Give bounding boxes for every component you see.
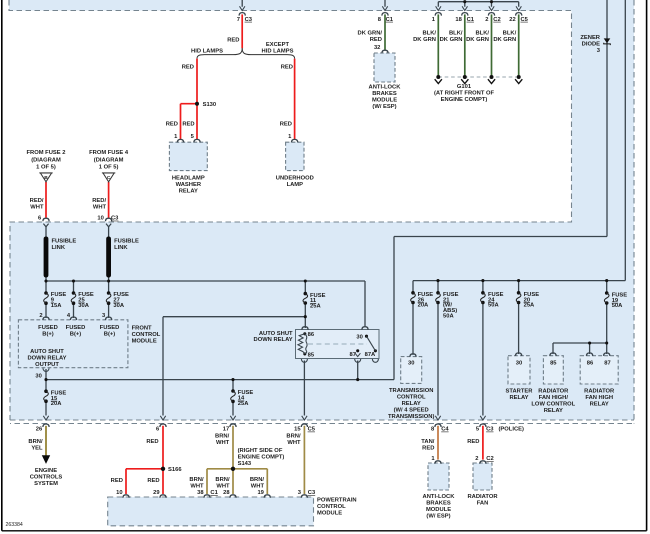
svg-text:BRAKES: BRAKES [426,501,451,507]
svg-text:TAN/: TAN/ [421,439,434,445]
svg-text:30: 30 [356,335,362,341]
svg-text:28: 28 [223,490,230,496]
svg-text:S166: S166 [168,467,182,473]
svg-text:FROM FUSE 4: FROM FUSE 4 [89,150,129,156]
svg-text:FAN HIGH: FAN HIGH [585,395,613,401]
svg-text:50A: 50A [612,303,623,309]
svg-text:S130: S130 [203,102,217,108]
svg-text:WHT: WHT [30,205,44,211]
svg-text:RED: RED [281,65,293,71]
svg-text:(AT RIGHT FRONT OF: (AT RIGHT FRONT OF [434,91,495,97]
svg-text:(W/ ESP): (W/ ESP) [372,104,396,110]
svg-text:25A: 25A [310,304,321,310]
svg-text:87: 87 [350,352,356,358]
svg-text:(DIAGRAM: (DIAGRAM [94,157,124,163]
svg-text:(RIGHT SIDE OF: (RIGHT SIDE OF [238,448,283,454]
svg-text:WHT: WHT [251,484,265,490]
svg-text:ENGINE COMPT): ENGINE COMPT) [441,97,488,103]
svg-text:RED: RED [280,121,292,127]
svg-text:86: 86 [587,361,594,367]
svg-text:MODULE: MODULE [426,507,451,513]
svg-text:87A: 87A [365,352,376,358]
svg-text:ANTI-LOCK: ANTI-LOCK [369,85,402,91]
svg-text:LOW CONTROL: LOW CONTROL [531,401,575,407]
svg-text:RELAY: RELAY [402,401,421,407]
svg-text:FUSIBLE: FUSIBLE [114,239,139,245]
svg-text:WHT: WHT [93,205,107,211]
svg-text:FAN HIGH/: FAN HIGH/ [539,395,569,401]
svg-text:85: 85 [550,361,557,367]
svg-text:RED: RED [422,446,434,452]
svg-text:1 OF 5): 1 OF 5) [99,164,119,170]
svg-text:17: 17 [223,427,229,433]
svg-text:(W/ ESP): (W/ ESP) [426,514,450,520]
svg-text:RED: RED [227,38,239,44]
svg-text:C4: C4 [441,427,449,433]
svg-text:DIODE: DIODE [582,41,600,47]
svg-text:20A: 20A [418,303,429,309]
svg-text:B(+): B(+) [104,331,116,337]
svg-text:30A: 30A [113,303,124,309]
svg-text:ANTI-LOCK: ANTI-LOCK [423,494,456,500]
svg-text:RED: RED [147,478,159,484]
svg-text:WHT: WHT [287,440,301,446]
svg-text:BLK/: BLK/ [503,30,517,36]
svg-text:C5: C5 [521,17,529,23]
svg-text:26: 26 [36,427,43,433]
svg-text:RADIATOR: RADIATOR [467,494,498,500]
svg-text:FUSED: FUSED [38,325,58,331]
svg-text:DOWN RELAY: DOWN RELAY [27,356,66,362]
svg-text:C3: C3 [245,17,253,23]
svg-text:C5: C5 [308,427,316,433]
svg-text:BRN/: BRN/ [215,477,230,483]
svg-text:BRAKES: BRAKES [372,91,397,97]
svg-text:RADIATOR: RADIATOR [584,388,615,394]
svg-text:C2: C2 [493,17,500,23]
svg-text:MODULE: MODULE [132,338,157,344]
svg-text:FUSED: FUSED [66,325,86,331]
svg-text:15A: 15A [51,303,62,309]
svg-text:RED: RED [182,65,194,71]
svg-text:MODULE: MODULE [372,98,397,104]
svg-text:87: 87 [604,361,610,367]
svg-text:DK GRN: DK GRN [413,37,436,43]
svg-text:BRN/: BRN/ [189,477,204,483]
svg-text:RED: RED [467,439,479,445]
svg-text:15: 15 [294,427,301,433]
svg-text:18: 18 [455,17,462,23]
svg-text:50A: 50A [443,314,454,320]
svg-text:WHT: WHT [216,484,230,490]
svg-text:30: 30 [35,373,41,379]
svg-text:STARTER: STARTER [506,388,534,394]
svg-text:22: 22 [509,17,515,23]
svg-text:EXCEPT: EXCEPT [266,42,290,48]
svg-text:S143: S143 [238,461,252,467]
svg-text:YEL: YEL [31,446,43,452]
svg-text:C3: C3 [486,427,494,433]
svg-text:86: 86 [308,332,315,338]
svg-text:(DIAGRAM: (DIAGRAM [31,157,61,163]
svg-text:WHT: WHT [216,440,230,446]
svg-text:7: 7 [237,17,240,23]
svg-text:C1: C1 [467,17,475,23]
svg-text:25A: 25A [238,401,249,407]
svg-text:FUSIBLE: FUSIBLE [52,239,77,245]
svg-text:G101: G101 [457,84,472,90]
svg-text:(W/ 4 SPEED: (W/ 4 SPEED [394,408,429,414]
svg-text:TRANSMISSION): TRANSMISSION) [388,414,434,420]
svg-text:DK GRN: DK GRN [466,37,489,43]
svg-text:SYSTEM: SYSTEM [34,481,58,487]
svg-text:FRONT: FRONT [132,325,152,331]
svg-text:2: 2 [475,456,478,462]
svg-text:19: 19 [257,490,264,496]
svg-text:FUSED: FUSED [100,325,120,331]
svg-text:DOWN RELAY: DOWN RELAY [254,337,293,343]
svg-text:BRN/: BRN/ [28,439,43,445]
svg-text:C3: C3 [111,216,119,222]
svg-text:WHT: WHT [190,484,204,490]
svg-text:10: 10 [116,490,122,496]
svg-text:85: 85 [308,352,315,358]
svg-text:C1: C1 [210,490,218,496]
svg-text:C1: C1 [386,17,394,23]
svg-text:RED: RED [146,439,158,445]
svg-text:LAMP: LAMP [287,182,304,188]
svg-text:30: 30 [408,361,414,367]
svg-text:DK GRN: DK GRN [440,37,463,43]
svg-text:263384: 263384 [6,522,23,528]
svg-text:FROM FUSE 2: FROM FUSE 2 [27,150,66,156]
svg-text:CONTROLS: CONTROLS [30,475,63,481]
svg-text:B(+): B(+) [70,331,82,337]
svg-text:WASHER: WASHER [176,182,202,188]
svg-text:MODULE: MODULE [317,510,342,516]
svg-text:ENGINE: ENGINE [35,468,57,474]
svg-text:POWERTRAIN: POWERTRAIN [317,497,357,503]
svg-text:B(+): B(+) [42,331,54,337]
svg-text:DK GRN/: DK GRN/ [358,30,383,36]
svg-text:BLK/: BLK/ [422,30,436,36]
svg-text:HID LAMPS: HID LAMPS [262,48,294,54]
svg-text:HEADLAMP: HEADLAMP [172,175,205,181]
svg-text:UNDERHOOD: UNDERHOOD [276,175,314,181]
svg-text:BRN/: BRN/ [215,434,230,440]
svg-text:ZENER: ZENER [580,35,600,41]
svg-text:30: 30 [516,361,522,367]
svg-text:RADIATOR: RADIATOR [538,388,569,394]
svg-text:50A: 50A [488,303,499,309]
svg-text:AUTO SHUT: AUTO SHUT [30,349,64,355]
svg-text:TRANSMISSION: TRANSMISSION [389,388,433,394]
svg-text:FAN: FAN [477,501,489,507]
svg-text:OUTPUT: OUTPUT [35,362,59,368]
svg-text:RED: RED [182,121,194,127]
svg-text:C3: C3 [308,490,316,496]
svg-text:CONTROL: CONTROL [132,332,161,338]
svg-text:RELAY: RELAY [590,401,609,407]
svg-text:BLK/: BLK/ [475,30,489,36]
svg-text:HID LAMPS: HID LAMPS [191,48,223,54]
svg-text:2: 2 [485,17,488,23]
svg-text:C2: C2 [486,456,493,462]
svg-text:BRN/: BRN/ [286,434,301,440]
svg-text:AUTO SHUT: AUTO SHUT [259,331,293,337]
svg-text:BRN/: BRN/ [250,477,265,483]
svg-text:20A: 20A [51,401,62,407]
svg-text:RED: RED [166,121,178,127]
svg-text:BLK/: BLK/ [449,30,463,36]
svg-text:RED: RED [370,37,382,43]
svg-text:(POLICE): (POLICE) [499,427,525,433]
svg-text:RED: RED [111,478,123,484]
svg-text:RELAY: RELAY [544,408,563,414]
svg-text:1 OF 5): 1 OF 5) [36,164,56,170]
svg-text:DK GRN: DK GRN [493,37,516,43]
svg-text:25A: 25A [524,303,535,309]
svg-text:38: 38 [197,490,204,496]
svg-text:RELAY: RELAY [509,395,528,401]
svg-text:LINK: LINK [52,245,66,251]
svg-text:32: 32 [374,45,380,51]
svg-text:2: 2 [39,313,42,319]
svg-text:30A: 30A [78,303,89,309]
svg-text:CONTROL: CONTROL [397,395,426,401]
svg-text:ENGINE COMPT): ENGINE COMPT) [238,455,285,461]
svg-text:B: B [44,175,48,181]
svg-text:RELAY: RELAY [179,188,198,194]
svg-text:CONTROL: CONTROL [317,504,346,510]
svg-text:RED/: RED/ [30,198,44,204]
svg-text:29: 29 [153,490,160,496]
svg-text:RED/: RED/ [92,198,106,204]
svg-text:C: C [107,175,111,181]
svg-text:LINK: LINK [114,245,128,251]
svg-text:10: 10 [97,216,103,222]
